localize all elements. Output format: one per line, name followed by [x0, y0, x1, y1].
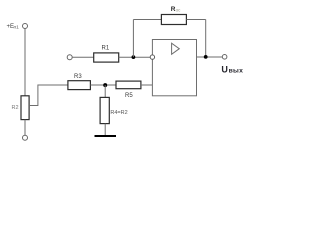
wire R5 to op-amp noninverting input — [141, 84, 153, 86]
node input terminal — [67, 55, 72, 60]
svg-text:R2: R2 — [12, 105, 19, 111]
svg-text:вых: вых — [229, 67, 244, 74]
resistor R2 — [21, 96, 29, 120]
wire input terminal to R1 — [72, 56, 94, 58]
resistor R5 — [116, 81, 141, 89]
wire feedback top left — [133, 19, 161, 21]
resistor Roc — [161, 15, 186, 25]
wire feedback top right — [186, 19, 205, 21]
wire R1 to inverting input — [119, 56, 151, 58]
node output terminal — [222, 55, 227, 60]
wire feedback left vertical — [132, 20, 134, 58]
wire R4 to ground — [104, 124, 106, 136]
label R4=R2 — [110, 110, 127, 116]
op-amp U1 — [152, 40, 196, 96]
wire feedback right vertical — [205, 20, 207, 58]
label R5 — [125, 93, 133, 99]
node junction B — [132, 55, 136, 59]
svg-text:R5: R5 — [125, 93, 133, 99]
label Uvyh — [221, 64, 243, 74]
wire R3 to R5 — [90, 84, 116, 86]
svg-text:R3: R3 — [74, 74, 82, 80]
svg-text:R1: R1 — [102, 46, 110, 52]
resistor R4 — [100, 97, 109, 123]
wire R2 bottom to lower terminal — [24, 120, 26, 136]
label R2 — [12, 105, 19, 111]
node lower terminal — [23, 135, 28, 140]
ground — [95, 135, 117, 137]
node junction A — [103, 83, 107, 87]
node junction C — [204, 55, 208, 59]
wire junction A down to R4 — [104, 85, 106, 97]
inverting input circle — [150, 55, 154, 59]
label Roc — [171, 6, 181, 13]
svg-text:ос: ос — [176, 7, 182, 12]
node +Ep1 terminal — [23, 24, 28, 29]
resistor R3 — [68, 81, 91, 90]
svg-text:U: U — [221, 64, 228, 74]
label +Ep1 — [7, 24, 20, 30]
svg-text:п1: п1 — [14, 24, 20, 30]
resistor R1 — [94, 53, 119, 62]
wire R2 tap to R3 — [29, 85, 68, 106]
wire from +Ep1 down to R2 — [24, 28, 26, 95]
svg-text:R4=R2: R4=R2 — [110, 110, 127, 116]
label R1 — [102, 46, 110, 52]
label R3 — [74, 74, 82, 80]
wire op-amp output — [197, 56, 223, 58]
